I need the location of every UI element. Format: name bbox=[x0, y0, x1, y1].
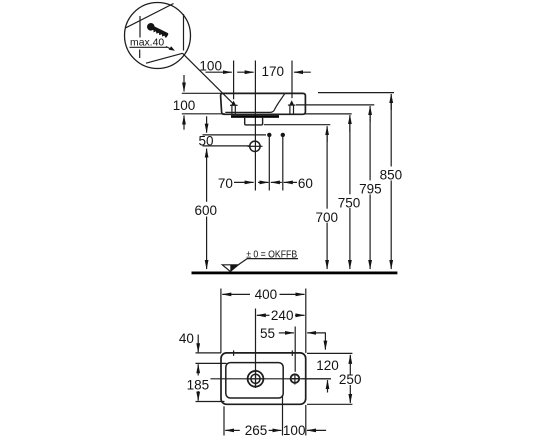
screw in circle bbox=[146, 22, 170, 39]
dimension 750 vertical bbox=[338, 118, 361, 269]
tap circle line bbox=[203, 145, 250, 147]
dot 2 extension bbox=[282, 135, 284, 191]
max.40 label bbox=[129, 38, 167, 49]
svg-text:400: 400 bbox=[255, 287, 278, 302]
leader from triangle to OKFFB bbox=[238, 259, 298, 265]
drain box bbox=[245, 118, 263, 125]
plan fixing hole tick right bbox=[291, 350, 293, 356]
svg-text:265: 265 bbox=[245, 423, 268, 438]
svg-text:120: 120 bbox=[316, 358, 339, 373]
svg-text:240: 240 bbox=[271, 308, 294, 323]
plan inner basin outline bbox=[226, 363, 283, 398]
plan horizontal centerline bbox=[211, 378, 331, 380]
sink side view outline bbox=[221, 93, 306, 114]
tap hole front view bbox=[248, 141, 263, 151]
dimension 700 vertical bbox=[316, 129, 339, 269]
svg-text:185: 185 bbox=[187, 378, 210, 393]
leader arrow from max.40 to screw tip bbox=[166, 47, 171, 49]
dot 1 bbox=[267, 133, 271, 137]
left vertical 100 dimension bbox=[173, 75, 225, 130]
svg-text:100: 100 bbox=[283, 423, 306, 438]
dot 2 bbox=[281, 133, 285, 137]
plan: dimension 120 bbox=[302, 358, 339, 392]
svg-text:600: 600 bbox=[195, 203, 218, 218]
dimension 170 right arrow bbox=[294, 71, 311, 73]
floor line bbox=[192, 272, 398, 275]
centerline of sink bbox=[254, 61, 256, 191]
sink interior curve bbox=[225, 94, 284, 113]
dots line bbox=[203, 134, 267, 136]
datum line 700 bbox=[264, 124, 330, 126]
svg-text:850: 850 bbox=[380, 168, 403, 183]
up arrow at 700 datum bbox=[326, 126, 328, 142]
plan: dimension 55 bbox=[260, 326, 325, 350]
hatch diagonal in circle bbox=[126, 4, 174, 29]
600 and 50 dimension vertical bbox=[195, 116, 218, 269]
dimension 100 top arrows bbox=[206, 71, 232, 73]
svg-text:795: 795 bbox=[359, 182, 382, 197]
svg-text:70: 70 bbox=[218, 176, 233, 191]
svg-text:250: 250 bbox=[339, 372, 362, 387]
drain symbol bbox=[247, 369, 264, 388]
extension line left screw bbox=[233, 61, 235, 100]
svg-text:60: 60 bbox=[298, 176, 313, 191]
plan fixing hole tick left bbox=[233, 350, 235, 356]
detail circle bbox=[125, 3, 191, 69]
datum line 795 bbox=[296, 104, 374, 106]
svg-text:100: 100 bbox=[173, 98, 196, 113]
plan outer outline bbox=[221, 353, 306, 404]
plan: dimension 240 bbox=[257, 308, 305, 323]
up arrow at 850 datum bbox=[390, 94, 392, 110]
plan: dimension 40 bbox=[179, 331, 227, 363]
dimension 60 bbox=[271, 181, 282, 183]
svg-text:± 0 = OKFFB: ± 0 = OKFFB bbox=[246, 249, 297, 261]
plan: dimension 250 bbox=[307, 353, 361, 404]
svg-text:40: 40 bbox=[179, 331, 194, 346]
mounting bar under sink bbox=[231, 115, 279, 118]
wall line B in circle bbox=[183, 14, 185, 51]
dimension 850 vertical bbox=[380, 97, 403, 269]
svg-text:55: 55 bbox=[260, 326, 275, 341]
drain centerline vertical bbox=[255, 309, 257, 388]
datum line 850 bbox=[318, 92, 394, 94]
dimension 795 vertical bbox=[359, 109, 382, 269]
dot 1 extension bbox=[268, 135, 270, 191]
extension line right screw bbox=[291, 61, 293, 99]
svg-text:750: 750 bbox=[338, 195, 361, 210]
floor level triangle bbox=[222, 265, 238, 272]
lower diagonal in circle bbox=[146, 53, 183, 63]
svg-text:50: 50 bbox=[198, 134, 213, 149]
up arrow at 795 datum bbox=[369, 106, 371, 122]
left fixing screw bbox=[230, 101, 238, 114]
plan: dimension 185 bbox=[187, 364, 225, 401]
bottom dimension 265 and 100 bbox=[224, 395, 326, 438]
datum line 750 (bottom edge extension) bbox=[305, 113, 351, 115]
up arrow at 750 datum bbox=[349, 115, 351, 132]
tap hole plan bbox=[291, 374, 300, 384]
tap centerline vertical bbox=[294, 327, 296, 372]
leader line from circle to sink screw bbox=[183, 53, 233, 103]
right fixing screw bbox=[288, 100, 296, 113]
svg-text:170: 170 bbox=[262, 64, 285, 79]
wall line A in circle bbox=[139, 16, 141, 58]
svg-text:100: 100 bbox=[199, 59, 222, 74]
svg-text:700: 700 bbox=[316, 210, 339, 225]
plan: dimension 400 bbox=[221, 287, 306, 353]
